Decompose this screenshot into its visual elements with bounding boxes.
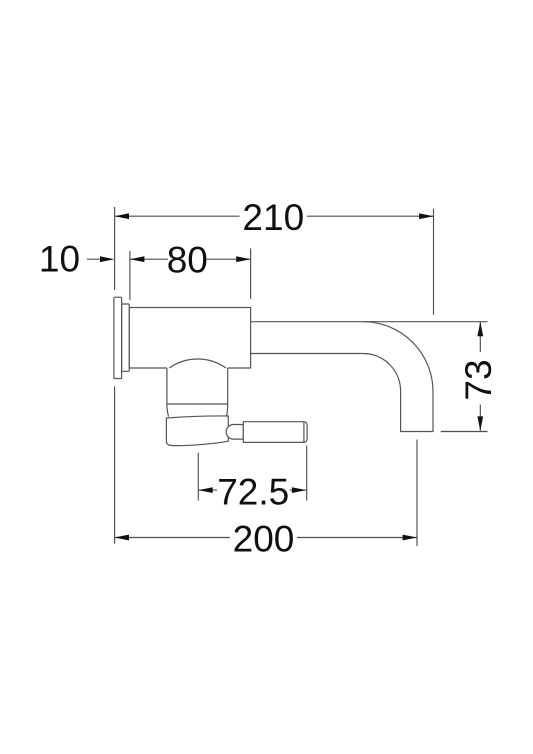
svg-text:200: 200: [233, 519, 295, 560]
svg-text:10: 10: [39, 239, 80, 280]
svg-text:72.5: 72.5: [217, 472, 289, 513]
svg-text:73: 73: [458, 359, 499, 400]
svg-text:210: 210: [242, 197, 304, 238]
svg-text:80: 80: [167, 239, 208, 280]
